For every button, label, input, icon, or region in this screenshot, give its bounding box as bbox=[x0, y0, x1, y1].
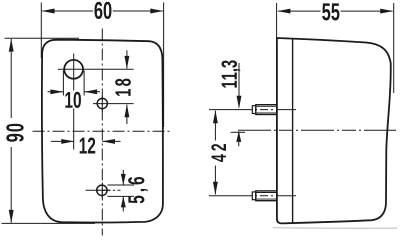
horizontal centerline of front view bbox=[33, 130, 170, 132]
dim 5,6 top extension line bbox=[108, 184, 135, 186]
dim 90 line + arrows bbox=[10, 39, 12, 223]
dim 60 label bbox=[94, 2, 111, 19]
dim 18 top arrow (outside, pointing down) bbox=[126, 50, 128, 68]
dim 55 right extension line bbox=[393, 3, 395, 93]
dim 11,3 down arrow bbox=[238, 63, 240, 108]
top stud inner lines bbox=[256, 106, 277, 113]
side view horizontal centerline bbox=[238, 129, 396, 131]
dim 90 bottom extension line bbox=[2, 222, 96, 224]
dim 55 label bbox=[322, 3, 339, 20]
dim 10 right extension line bbox=[83, 71, 85, 96]
lamp body outline (front view) bbox=[42, 40, 163, 223]
side view housing seam line bbox=[292, 39, 294, 224]
dim 18 label (rotated) bbox=[115, 79, 131, 96]
dim 90 top extension line bbox=[5, 37, 80, 39]
dim 11,3 up arrow bbox=[238, 131, 240, 146]
dim 12 right arrow bbox=[102, 140, 120, 142]
centerline solid through middle hole bbox=[101, 96, 103, 112]
hole H3 (bottom, Ø5.6) circle bbox=[97, 185, 107, 195]
dim 5,6 arrows (outside) bbox=[122, 170, 124, 212]
hole H3 horizontal centerline bbox=[86, 189, 121, 191]
dim 11,3 centerline tick bbox=[231, 131, 245, 133]
top stud tip bbox=[252, 106, 256, 114]
dim 60 left extension line bbox=[40, 3, 42, 59]
dim 42 line + arrows bbox=[214, 111, 216, 195]
centerline solid through bottom hole bbox=[101, 183, 103, 199]
dim 10 left extension line bbox=[62, 71, 64, 96]
top stud body bbox=[256, 105, 277, 115]
faint scan shadow under side view bbox=[273, 227, 397, 230]
side view body outline bbox=[277, 38, 391, 223]
horizontal solid through bottom hole bbox=[95, 189, 111, 191]
dim 60 right extension line bbox=[163, 3, 165, 128]
dim 5,6 bottom extension line bbox=[108, 195, 135, 197]
dim 55 left extension line bbox=[276, 3, 278, 38]
dim 10 label bbox=[65, 92, 81, 108]
dim 42 label (rotated) bbox=[211, 144, 226, 162]
dim 90 label (rotated) bbox=[6, 124, 23, 142]
bottom stud body bbox=[256, 191, 277, 201]
dim 12 left arrow bbox=[51, 140, 74, 142]
bottom stud centerline bbox=[209, 195, 296, 197]
hole H1 (top, Ø10) crosshair vertical bbox=[73, 54, 75, 150]
dim 11,3 label (rotated) bbox=[221, 60, 240, 87]
dim 12 label bbox=[80, 137, 96, 153]
top stud centerline bbox=[209, 109, 296, 111]
dim 18 bottom arrow (outside, pointing up) bbox=[126, 105, 128, 124]
hole H1 circle bbox=[64, 60, 83, 79]
bottom stud inner lines bbox=[256, 193, 277, 200]
vertical centerline of front view bbox=[101, 29, 103, 236]
hole H1 crosshair horizontal / ext line for 18 bbox=[58, 68, 134, 70]
dim 10 arrows (outside) bbox=[48, 91, 101, 93]
dim 5,6 label (rotated) bbox=[128, 177, 148, 203]
hole H2 (middle) horizontal line / ext for 18 bbox=[93, 103, 134, 105]
dim 55 line + arrows bbox=[278, 10, 393, 12]
hole H2 circle bbox=[97, 98, 107, 108]
bottom stud tip bbox=[252, 192, 256, 200]
dim 60 line + arrows bbox=[42, 10, 163, 12]
